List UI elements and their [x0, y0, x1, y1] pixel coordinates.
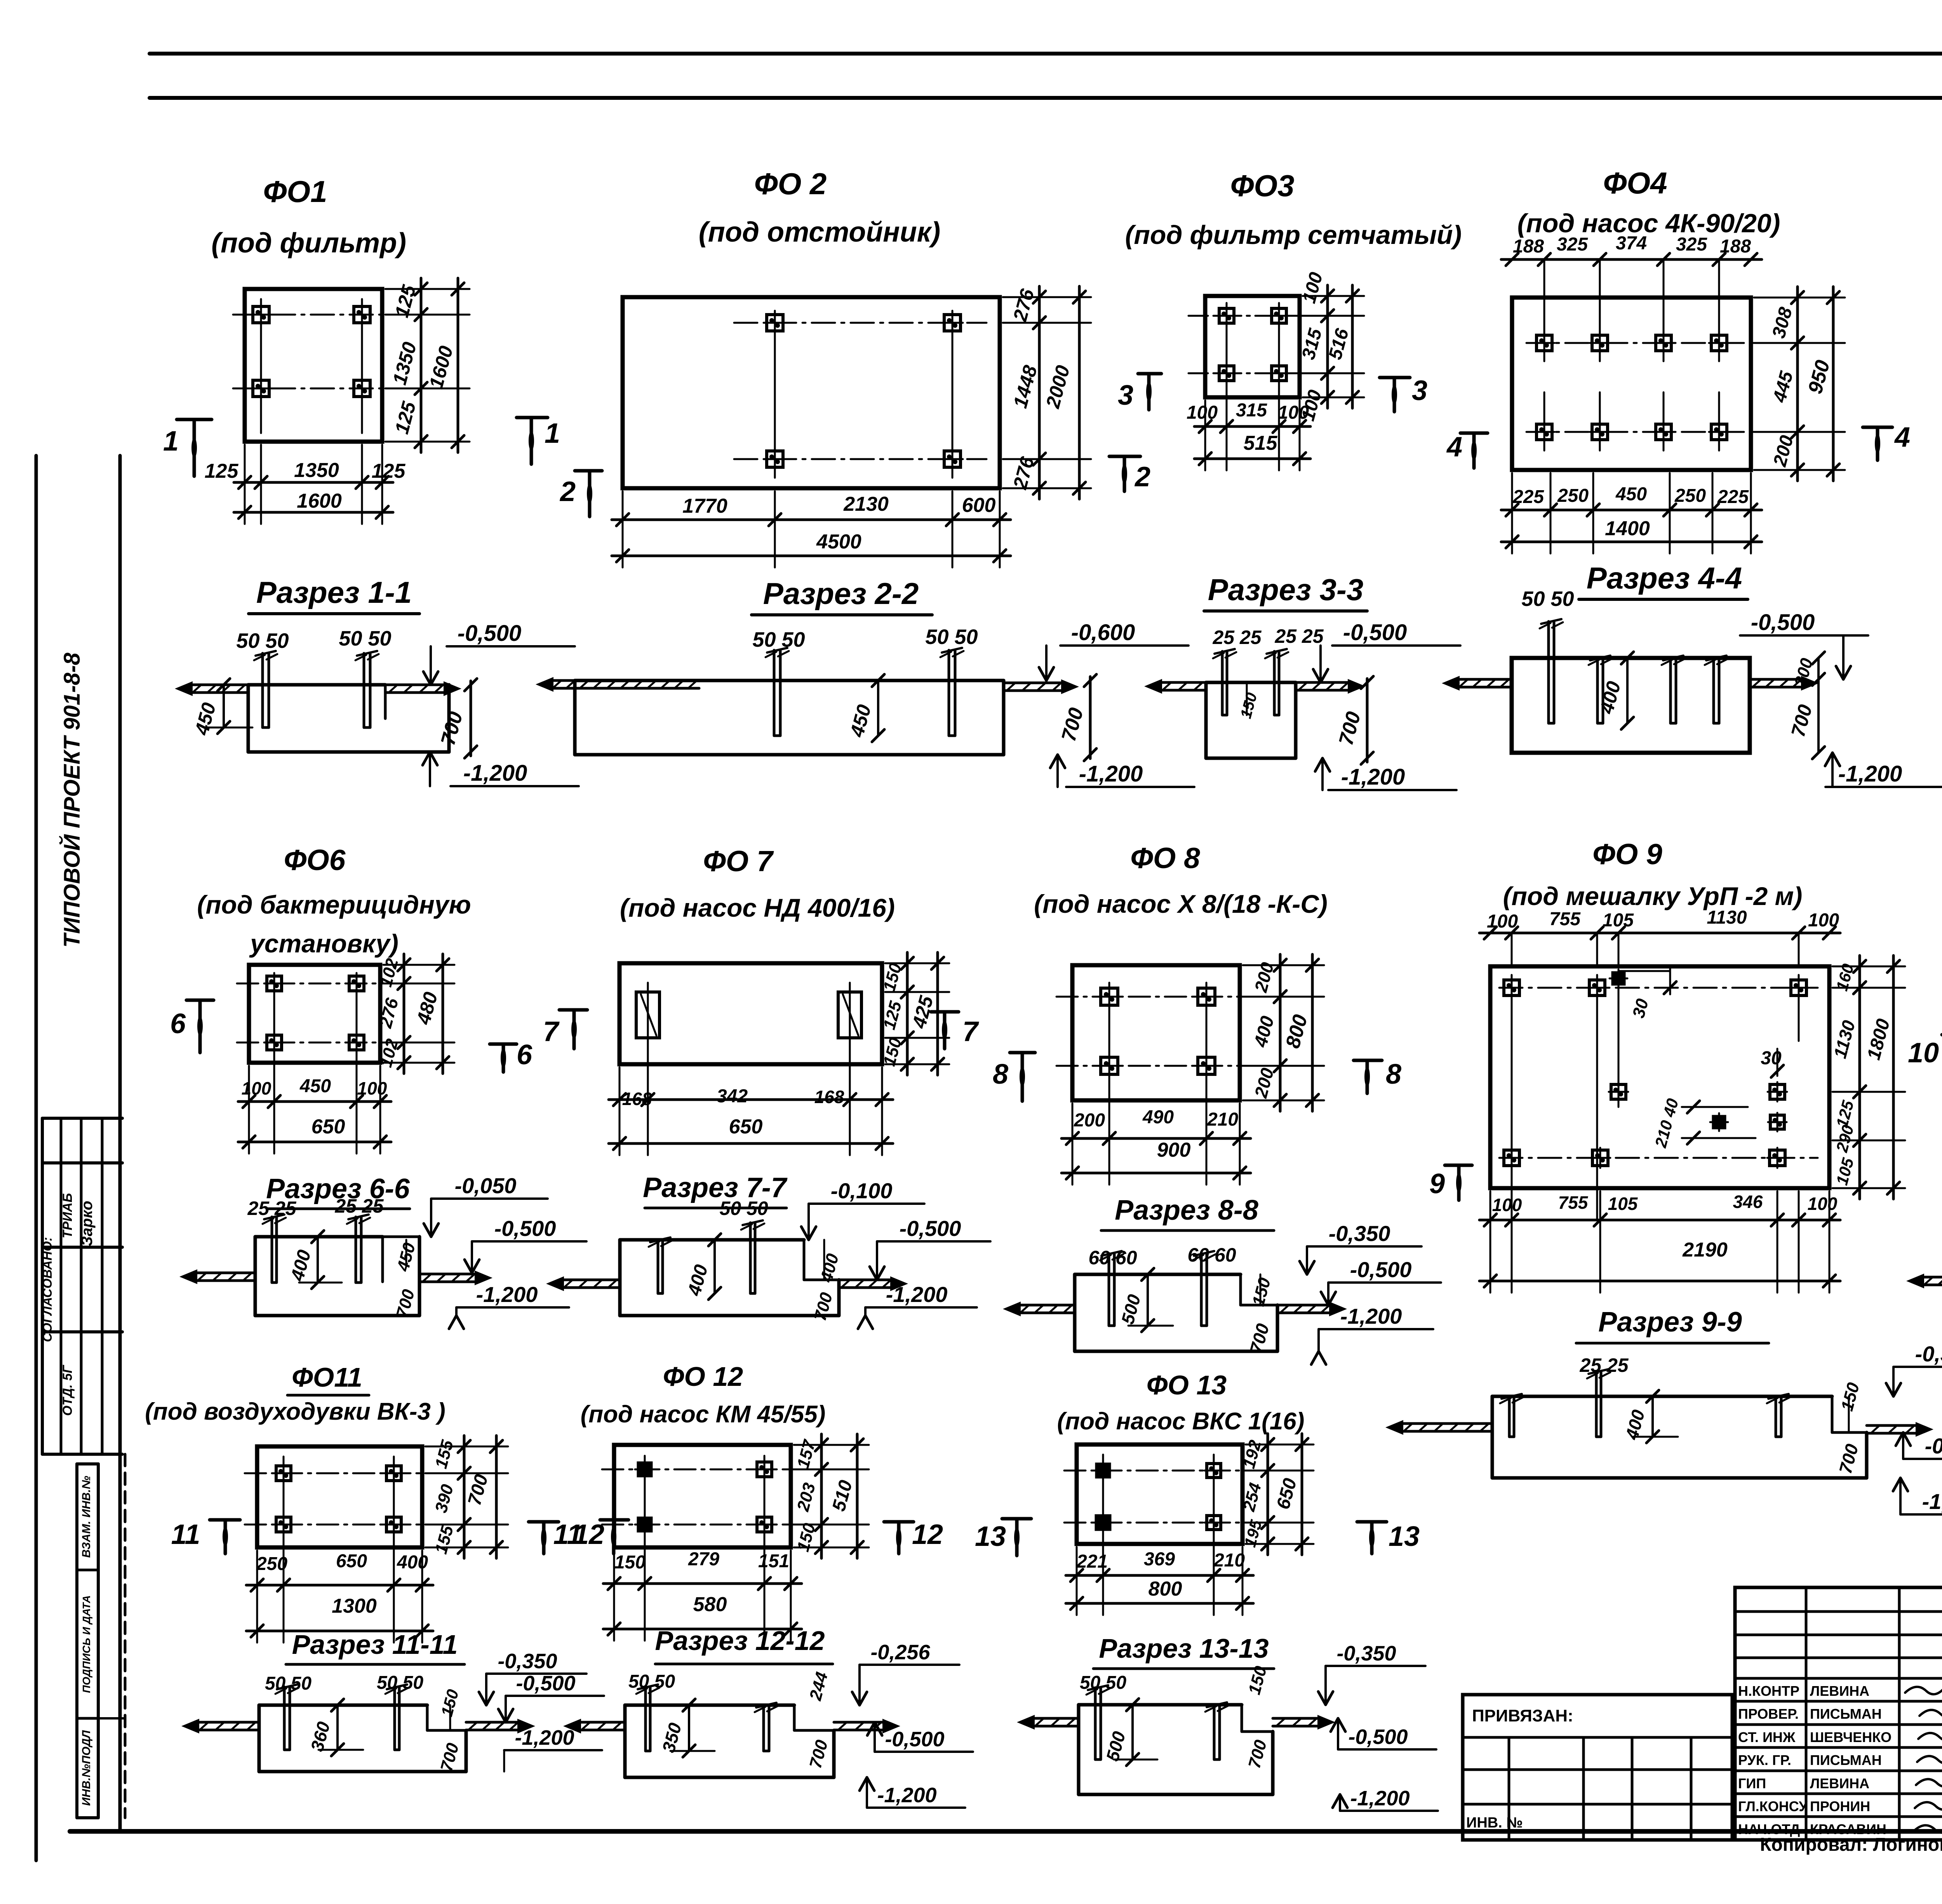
svg-text:210 40: 210 40 [1651, 1096, 1682, 1150]
plan FO9 centerlines [1499, 987, 1818, 989]
svg-text:100: 100 [357, 1078, 387, 1098]
plan FO4 column extension lines [1544, 259, 1545, 361]
section 2-2 embed dim 450 [877, 680, 879, 736]
svg-text:650: 650 [336, 1551, 367, 1572]
plan FO13 right dims 192/254/195 and 650 [1267, 1434, 1269, 1555]
svg-text:ЛЕВИНА: ЛЕВИНА [1810, 1683, 1869, 1699]
plan FO2 centerlines [734, 322, 987, 324]
svg-text:600: 600 [962, 494, 996, 517]
svg-text:700: 700 [437, 709, 467, 748]
svg-text:-0,500: -0,500 [885, 1728, 944, 1751]
plan FO3 bottom dims 100/315/100 and 515 [1194, 425, 1310, 428]
section marker 1 right [517, 416, 548, 419]
svg-text:1770: 1770 [682, 495, 727, 517]
plan FO4 bottom dims 225/250/450/250/225 and 1400 [1501, 509, 1762, 512]
svg-text:ПОДПИСЬ И ДАТА: ПОДПИСЬ И ДАТА [80, 1595, 92, 1693]
svg-text:650: 650 [311, 1116, 345, 1138]
plan FO9 bolts row1 [1504, 980, 1519, 996]
svg-text:-1,200: -1,200 [877, 1784, 936, 1807]
svg-text:ЛЕВИНА: ЛЕВИНА [1810, 1775, 1869, 1791]
svg-text:ПРИВЯЗАН:: ПРИВЯЗАН: [1472, 1706, 1573, 1725]
plan FO9 bolt offset top [1613, 973, 1624, 984]
section marker 2 left [575, 469, 602, 473]
svg-text:800: 800 [1148, 1578, 1182, 1600]
sidebar approval table [42, 1117, 122, 1120]
svg-text:150: 150 [1237, 691, 1261, 721]
svg-text:755: 755 [1558, 1192, 1589, 1213]
svg-text:244: 244 [806, 1670, 832, 1703]
plan FO1 bolts [253, 306, 269, 323]
svg-text:700: 700 [464, 1472, 492, 1507]
svg-text:ТИПОВОЙ ПРОЕКТ 901-8-8: ТИПОВОЙ ПРОЕКТ 901-8-8 [59, 653, 85, 948]
svg-text:203: 203 [794, 1481, 820, 1514]
svg-text:279: 279 [688, 1549, 719, 1570]
section marker 11 right [529, 1520, 559, 1524]
plan FO9 bolts bottom row [1504, 1150, 1519, 1166]
svg-text:установку): установку) [249, 929, 398, 958]
svg-text:1600: 1600 [297, 490, 342, 512]
svg-text:315: 315 [1236, 400, 1267, 421]
section 8-8 dims 150/700 right [1260, 1274, 1262, 1305]
svg-text:308: 308 [1768, 305, 1796, 340]
svg-text:150: 150 [794, 1521, 819, 1554]
svg-text:-1,200: -1,200 [1341, 764, 1405, 790]
section 9-9 anchor bolts [1508, 1396, 1511, 1437]
svg-text:325: 325 [1557, 234, 1588, 255]
plan FO2 right dims 276/1448/276 and 2000 [1038, 286, 1041, 499]
svg-text:105: 105 [1603, 910, 1634, 931]
svg-text:369: 369 [1144, 1549, 1175, 1570]
plan FO8 bolts [1101, 988, 1118, 1005]
svg-text:3: 3 [1118, 380, 1133, 411]
svg-text:510: 510 [828, 1478, 856, 1513]
svg-text:225: 225 [1512, 487, 1544, 507]
section marker 4 right [1863, 426, 1892, 429]
plan FO2 bolts [767, 315, 783, 331]
svg-text:(под мешалку УрП -2 м): (под мешалку УрП -2 м) [1503, 882, 1803, 910]
plan FO12 rectangle [614, 1445, 791, 1547]
svg-text:700: 700 [1787, 702, 1817, 739]
svg-text:СТ. ИНЖ: СТ. ИНЖ [1738, 1729, 1796, 1745]
section 8-8 left floor strip [1018, 1304, 1075, 1307]
svg-text:2000: 2000 [1042, 363, 1074, 411]
plan FO3 centerlines [1189, 315, 1321, 317]
plan FO6 right dims 102/276/102 and 480 [403, 954, 405, 1074]
svg-text:3: 3 [1412, 375, 1427, 406]
svg-text:12: 12 [912, 1519, 943, 1550]
svg-text:900: 900 [1157, 1139, 1191, 1161]
section 6-6 right floor strip [419, 1273, 478, 1276]
svg-text:-0,500: -0,500 [1350, 1257, 1412, 1282]
svg-text:ИНВ.№ПОДЛ: ИНВ.№ПОДЛ [80, 1730, 93, 1806]
svg-text:250: 250 [1674, 486, 1706, 506]
plan FO11 rectangle [257, 1446, 422, 1547]
svg-text:500: 500 [1117, 1292, 1144, 1326]
section 11-11 left floor strip [196, 1721, 259, 1724]
section 7-7 embed dim 400 [713, 1240, 716, 1293]
svg-text:200: 200 [1250, 1066, 1277, 1100]
section 1-1 foundation block [248, 683, 385, 687]
svg-text:-0,350: -0,350 [1336, 1642, 1396, 1665]
section marker 12 left [600, 1518, 628, 1522]
svg-text:-1,200: -1,200 [1340, 1304, 1402, 1328]
plan FO9 bottom dim lines [1479, 1219, 1840, 1222]
svg-text:СОГЛАСОВАНО:: СОГЛАСОВАНО: [40, 1237, 54, 1342]
section marker 13 right [1357, 1520, 1387, 1524]
section 8-8 anchor bolts [1108, 1253, 1110, 1326]
svg-text:225: 225 [1717, 487, 1749, 507]
svg-text:ТРИАБ: ТРИАБ [60, 1193, 75, 1239]
svg-text:ФО1: ФО1 [263, 174, 327, 209]
svg-text:9: 9 [1429, 1168, 1445, 1199]
section 12-12 embed dim 350 [688, 1705, 690, 1751]
svg-text:50 50: 50 50 [925, 625, 978, 649]
section 11-11 right floor strip [466, 1721, 520, 1724]
svg-text:ГЛ.КОНСУ: ГЛ.КОНСУ [1738, 1798, 1808, 1814]
plan FO12 right dims 157/203/150 and 510 [820, 1434, 823, 1558]
svg-text:-1,200: -1,200 [476, 1282, 538, 1307]
svg-text:Зарко: Зарко [78, 1201, 96, 1246]
section 9-9 embed dim 400 [1651, 1396, 1654, 1437]
svg-text:210: 210 [1207, 1109, 1238, 1130]
svg-text:700: 700 [1835, 1442, 1862, 1476]
svg-text:Разрез 9-9: Разрез 9-9 [1598, 1307, 1742, 1338]
plan FO1 bottom dim lines [234, 481, 393, 484]
plan FO4 bolts top row [1537, 335, 1552, 351]
svg-text:-0,256: -0,256 [870, 1641, 930, 1664]
svg-text:155: 155 [432, 1523, 457, 1556]
section marker 9 left [1445, 1164, 1472, 1167]
svg-text:50 50: 50 50 [719, 1197, 768, 1219]
svg-text:700: 700 [1335, 709, 1365, 748]
svg-text:-1,200: -1,200 [1838, 761, 1902, 787]
svg-text:450: 450 [846, 702, 875, 740]
section 8-8 embed dim 500 [1147, 1274, 1149, 1326]
svg-text:6: 6 [517, 1039, 532, 1070]
section 6-6 anchor bolts [271, 1217, 273, 1283]
svg-text:400: 400 [397, 1552, 428, 1573]
svg-text:ШЕВЧЕНКО: ШЕВЧЕНКО [1810, 1729, 1892, 1745]
plan FO8 rectangle [1072, 965, 1240, 1100]
top border lines [150, 52, 1942, 56]
svg-text:-0,100: -0,100 [831, 1178, 893, 1203]
svg-text:Разрез 12-12: Разрез 12-12 [655, 1626, 825, 1656]
svg-text:125: 125 [391, 399, 420, 436]
section 6-6 block [255, 1235, 383, 1239]
plan FO7 slot centerlines [647, 983, 649, 1084]
section 6-6 embed dim 400 [317, 1237, 319, 1283]
svg-text:-0,500: -0,500 [1751, 610, 1815, 635]
plan FO2 bottom dims 1770/2130/600 and 4500 [612, 519, 1011, 521]
svg-text:ГИП: ГИП [1738, 1775, 1766, 1791]
svg-text:450: 450 [299, 1076, 331, 1096]
svg-text:(под насос ВКС 1(16): (под насос ВКС 1(16) [1057, 1408, 1305, 1435]
svg-text:ПРОВЕР.: ПРОВЕР. [1738, 1706, 1799, 1722]
plan FO13 bolts [1096, 1464, 1110, 1477]
svg-text:1800: 1800 [1864, 1016, 1894, 1062]
svg-text:50 50: 50 50 [752, 628, 805, 651]
plan FO11 centerlines [245, 1472, 443, 1474]
svg-text:13: 13 [975, 1521, 1006, 1552]
plan FO9 grid extension lines [1511, 933, 1513, 966]
section 12-12 right floor strip [834, 1721, 886, 1724]
svg-text:450: 450 [1615, 484, 1647, 505]
svg-text:ПРОНИН: ПРОНИН [1810, 1798, 1870, 1814]
svg-text:Копировал: Логинова: Копировал: Логинова [1760, 1834, 1942, 1855]
section marker 7 left [559, 1008, 587, 1012]
svg-text:2: 2 [1134, 461, 1150, 493]
section 11-11 block [259, 1704, 427, 1707]
svg-text:374: 374 [1616, 233, 1647, 254]
section 9-9 right floor strip [1867, 1424, 1919, 1427]
svg-text:8: 8 [993, 1059, 1008, 1090]
section marker 8 left [1010, 1051, 1035, 1055]
svg-text:ФО 7: ФО 7 [703, 845, 774, 877]
plan FO3 right dims 100/315/100 and 516 [1326, 285, 1329, 408]
plan FO13 rectangle [1077, 1445, 1242, 1544]
section 1-1 right floor strip [385, 684, 447, 686]
svg-text:12: 12 [573, 1519, 604, 1550]
section 7-7 dims 400/700 right [823, 1240, 825, 1280]
svg-text:390: 390 [432, 1482, 457, 1515]
section 8-8 block [1075, 1273, 1241, 1276]
svg-text:ОТД. 5Г: ОТД. 5Г [60, 1364, 75, 1416]
svg-text:1350: 1350 [294, 459, 339, 482]
plan FO13 centerlines [1064, 1470, 1262, 1472]
svg-text:50 50: 50 50 [1521, 587, 1574, 611]
svg-text:490: 490 [1142, 1107, 1174, 1128]
section 8-8 right floor strip [1277, 1304, 1332, 1307]
svg-text:500: 500 [1102, 1729, 1129, 1763]
section 4-4 right floor strip [1750, 678, 1804, 681]
svg-text:400: 400 [287, 1248, 315, 1283]
section 3-3 block [1206, 681, 1296, 684]
section 9-9 block [1492, 1395, 1832, 1398]
section marker 2 right [1109, 455, 1140, 458]
section 12-12 block [625, 1704, 794, 1707]
svg-text:346: 346 [1733, 1192, 1763, 1212]
plan FO6 rectangle [249, 965, 380, 1063]
section marker 7 right [931, 1010, 959, 1014]
svg-text:700: 700 [1057, 705, 1088, 744]
svg-text:-0,350: -0,350 [498, 1650, 557, 1673]
plan FO6 centerlines [237, 983, 400, 985]
svg-text:Н.КОНТР: Н.КОНТР [1738, 1683, 1799, 1699]
svg-text:1300: 1300 [332, 1595, 377, 1617]
section 1-1 left floor strip [190, 684, 248, 686]
svg-text:1600: 1600 [425, 343, 457, 391]
sidebar stamp column: vzam inv / podpis i data / inv n podl [77, 1462, 98, 1465]
svg-text:7: 7 [962, 1016, 979, 1047]
plan FO1 rectangle [245, 289, 382, 442]
svg-text:105: 105 [1608, 1194, 1638, 1214]
svg-text:Разрез 11-11: Разрез 11-11 [292, 1629, 458, 1660]
section marker 3 left [1138, 372, 1161, 376]
plan FO9 top dim line [1479, 932, 1840, 935]
svg-text:1: 1 [163, 426, 179, 457]
section 7-7 block [620, 1238, 804, 1242]
svg-text:25 25: 25 25 [1212, 627, 1262, 648]
svg-text:30: 30 [1629, 997, 1652, 1020]
svg-text:6: 6 [170, 1008, 186, 1039]
svg-text:650: 650 [729, 1116, 763, 1138]
plan FO12 centerlines [602, 1469, 812, 1471]
plan FO8 centerlines [1056, 996, 1262, 998]
svg-text:ФО11: ФО11 [292, 1362, 362, 1392]
svg-text:-1,200: -1,200 [886, 1282, 948, 1307]
title block: signature table [1735, 1587, 1942, 1840]
section marker 1 left [177, 418, 212, 421]
svg-text:450: 450 [393, 1241, 419, 1274]
svg-text:(под отстойник): (под отстойник) [699, 217, 941, 248]
section marker 3 right [1380, 376, 1410, 379]
section 13-13 embed dim 500 [1131, 1705, 1134, 1760]
plan FO12 bolts [638, 1463, 651, 1476]
section 13-13 right floor strip [1273, 1717, 1321, 1720]
svg-text:25 25: 25 25 [334, 1195, 384, 1217]
plan FO13 bottom dims 221/369/210 and 800 [1066, 1574, 1253, 1577]
section marker 4 left [1460, 432, 1488, 435]
section 7-7 left floor strip [561, 1279, 620, 1281]
plan FO4 right dims 308/445/200 and 950 [1796, 287, 1799, 481]
svg-text:-1,200: -1,200 [1350, 1787, 1410, 1810]
section marker 13 left [1002, 1517, 1031, 1521]
svg-text:60 60: 60 60 [1088, 1247, 1137, 1269]
section 13-13 anchor bolts [1094, 1688, 1097, 1760]
svg-text:-0,350: -0,350 [1915, 1342, 1942, 1366]
svg-text:200: 200 [1770, 433, 1798, 469]
section 12-12 anchor bolts [644, 1687, 647, 1751]
svg-text:-1,200: -1,200 [463, 761, 527, 786]
svg-text:1448: 1448 [1009, 363, 1041, 410]
section 10-10 left floor strip [1921, 1276, 1942, 1279]
svg-text:700: 700 [437, 1741, 463, 1773]
svg-text:(под бактерицидную: (под бактерицидную [197, 890, 471, 919]
section 2-2 depth dim 700 [1089, 677, 1092, 759]
svg-text:105: 105 [1832, 1156, 1857, 1187]
section marker 11 left [210, 1518, 240, 1522]
svg-text:-0,500: -0,500 [1925, 1434, 1942, 1458]
svg-text:480: 480 [412, 990, 442, 1027]
svg-text:700: 700 [811, 1290, 836, 1323]
svg-text:ФО 2: ФО 2 [754, 167, 827, 201]
section 4-4 right dims 300/700 [1817, 658, 1820, 753]
svg-text:50 50: 50 50 [628, 1671, 675, 1692]
svg-text:150: 150 [1838, 1380, 1863, 1413]
svg-text:ФО 13: ФО 13 [1147, 1370, 1227, 1400]
svg-text:1130: 1130 [1707, 907, 1747, 928]
plan FO3 bolts [1219, 308, 1234, 323]
svg-text:Разрез 3-3: Разрез 3-3 [1208, 573, 1363, 607]
svg-text:ФО 8: ФО 8 [1130, 842, 1200, 874]
plan FO4 rectangle [1512, 298, 1751, 470]
section 1-1 anchor bolts [261, 653, 264, 727]
plan FO12 bottom dims 150/279/151 and 580 [603, 1582, 802, 1585]
title block: privyazan table [1463, 1695, 1732, 1840]
section 2-2 anchor bolts [773, 650, 776, 736]
section 2-2 slab band [575, 679, 1004, 682]
svg-text:-0,500: -0,500 [458, 621, 521, 646]
svg-text:100: 100 [1808, 1194, 1838, 1214]
section 3-3 embed dim [1246, 682, 1248, 715]
svg-text:515: 515 [1244, 432, 1278, 454]
svg-text:150: 150 [1249, 1276, 1274, 1308]
svg-text:157: 157 [794, 1437, 820, 1471]
svg-text:1: 1 [545, 418, 560, 449]
svg-text:(под насос 4К-90/20): (под насос 4К-90/20) [1517, 209, 1780, 238]
plan FO11 bottom dims 250/650/400 and 1300 [246, 1584, 433, 1587]
plan FO7 bottom dims 168/342/168 and 650 [609, 1098, 893, 1101]
svg-text:-0,500: -0,500 [900, 1216, 961, 1241]
svg-text:200: 200 [1074, 1110, 1105, 1131]
plan FO9 rectangle [1490, 966, 1829, 1188]
section 11-11 embed dim 360 [336, 1705, 339, 1750]
svg-text:2130: 2130 [843, 493, 889, 515]
svg-text:ИНВ. №: ИНВ. № [1466, 1815, 1523, 1831]
svg-text:-0,500: -0,500 [1343, 620, 1407, 645]
svg-text:25 25: 25 25 [1274, 625, 1324, 647]
section 11-11 dims 150/700 [449, 1705, 451, 1730]
svg-text:700: 700 [1245, 1738, 1270, 1770]
svg-text:(под фильтр): (под фильтр) [211, 228, 406, 259]
svg-text:516: 516 [1325, 326, 1353, 362]
svg-text:50 50: 50 50 [265, 1673, 311, 1694]
svg-text:290: 290 [1832, 1123, 1857, 1154]
svg-text:ФО6: ФО6 [284, 844, 346, 876]
svg-text:350: 350 [658, 1721, 685, 1755]
section 9-9 dims 150/700 right [1848, 1396, 1850, 1432]
section 2-2 right floor strip [1004, 682, 1064, 684]
svg-text:580: 580 [693, 1593, 727, 1616]
svg-text:2: 2 [559, 476, 576, 507]
svg-text:125: 125 [205, 460, 239, 482]
svg-text:276: 276 [1009, 286, 1038, 324]
svg-text:2190: 2190 [1682, 1239, 1728, 1261]
section 13-13 left floor strip [1032, 1717, 1079, 1720]
plan FO7 anchor slots [636, 992, 660, 1038]
plan FO1 centerlines [233, 314, 392, 316]
plan FO6 bottom dims 100/450/100 and 650 [238, 1100, 391, 1103]
svg-text:(под насос КМ 45/55): (под насос КМ 45/55) [581, 1401, 826, 1428]
svg-text:400: 400 [684, 1262, 712, 1298]
section 3-3 depth dim 700 [1366, 679, 1369, 762]
svg-text:700: 700 [806, 1738, 832, 1770]
svg-text:400: 400 [1250, 1014, 1278, 1049]
svg-text:8: 8 [1386, 1059, 1401, 1090]
svg-text:4500: 4500 [816, 531, 861, 553]
svg-text:100: 100 [1278, 402, 1309, 423]
svg-text:100: 100 [1492, 1195, 1522, 1215]
svg-text:210: 210 [1213, 1550, 1245, 1571]
svg-text:ФО4: ФО4 [1603, 166, 1667, 200]
svg-text:755: 755 [1549, 909, 1581, 929]
svg-text:125: 125 [372, 460, 406, 482]
plan FO2 rectangle [623, 297, 1000, 488]
section 1-1 depth dim 700 [470, 681, 472, 756]
svg-text:10: 10 [1908, 1037, 1939, 1069]
svg-text:150: 150 [437, 1687, 462, 1718]
svg-text:-0,050: -0,050 [455, 1173, 517, 1198]
section 11-11 anchor bolts [283, 1687, 286, 1750]
plan FO7 rectangle [619, 963, 882, 1064]
svg-text:13: 13 [1389, 1521, 1420, 1552]
svg-text:Разрез 1-1: Разрез 1-1 [256, 575, 412, 609]
plan FO9 bolts middle [1611, 1084, 1626, 1099]
plan FO8 bottom dims 200/490/210 and 900 [1061, 1137, 1251, 1140]
svg-text:(под фильтр сетчатый): (под фильтр сетчатый) [1125, 220, 1462, 250]
section 2-2 left floor strip [550, 679, 699, 682]
svg-text:-0,500: -0,500 [516, 1672, 575, 1695]
